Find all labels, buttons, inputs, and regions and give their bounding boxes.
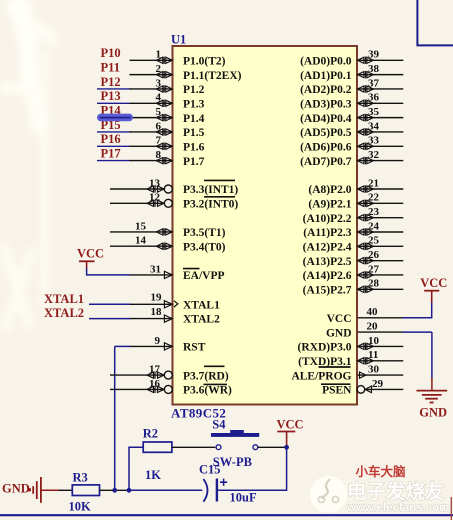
svg-text:GND: GND [2, 481, 30, 495]
resistor R2 [143, 427, 172, 482]
power symbol VCC (EA) [77, 247, 104, 269]
pin 6 P1.5 with net label P15 [97, 118, 205, 139]
svg-text:P1.4: P1.4 [183, 113, 205, 125]
svg-text:P3.4(T0): P3.4(T0) [183, 241, 226, 253]
svg-text:37: 37 [368, 77, 380, 89]
svg-text:27: 27 [368, 263, 380, 275]
svg-text:30: 30 [368, 364, 380, 376]
pin 36 (AD3)P0.3 [300, 92, 403, 111]
pin 16 P3.6(WR) [110, 378, 232, 397]
svg-text:19: 19 [151, 292, 163, 304]
svg-text:36: 36 [368, 92, 380, 104]
svg-text:P1.0(T2): P1.0(T2) [183, 56, 226, 68]
svg-text:XTAL2: XTAL2 [44, 306, 84, 320]
svg-text:7: 7 [156, 135, 162, 147]
svg-text:1: 1 [156, 49, 162, 61]
svg-text:R2: R2 [143, 427, 158, 441]
power symbol VCC (bottom) [277, 418, 304, 446]
pin 10 (RXD)P3.0 [298, 335, 404, 354]
pin 38 (AD1)P0.1 [300, 63, 403, 82]
pin 40 VCC [327, 306, 404, 325]
sheet edge line [450, 497, 452, 520]
svg-text:(A15)P2.7: (A15)P2.7 [303, 285, 352, 297]
svg-text:21: 21 [368, 177, 379, 189]
svg-text:3: 3 [156, 77, 162, 89]
svg-text:VCC: VCC [420, 276, 447, 290]
svg-text:5: 5 [156, 106, 162, 118]
pin 5 P1.4 with net label P14 [97, 103, 205, 124]
svg-text:www.elecfans.com: www.elecfans.com [346, 502, 449, 514]
svg-text:10uF: 10uF [230, 491, 257, 505]
pin 37 (AD2)P0.2 [300, 77, 403, 96]
label P3.2(INT0) [183, 197, 238, 211]
svg-text:P3.5(T1): P3.5(T1) [183, 227, 226, 239]
svg-text:U1: U1 [171, 33, 186, 47]
pin 3 P1.2 with net label P12 [97, 75, 205, 96]
ground symbol GND (right) [417, 391, 448, 420]
XTAL1 edge mark [174, 301, 178, 307]
pin 13 P3.3(INT1) [110, 177, 172, 193]
svg-text:(AD0)P0.0: (AD0)P0.0 [300, 56, 352, 68]
wire pin 20 to ground [431, 332, 433, 378]
svg-text:GND: GND [326, 327, 352, 339]
wire junction B to R2 [129, 447, 143, 490]
watermark text [346, 480, 449, 514]
svg-text:25: 25 [368, 235, 380, 247]
svg-text:(AD1)P0.1: (AD1)P0.1 [300, 70, 352, 82]
sheet frame fragment [417, 0, 453, 45]
svg-text:6: 6 [156, 120, 162, 132]
svg-text:(AD4)P0.4: (AD4)P0.4 [300, 113, 352, 125]
pin 2 P1.1(T2EX) with net label P11 [101, 60, 242, 81]
svg-text:RST: RST [183, 342, 206, 354]
svg-text:39: 39 [368, 49, 380, 61]
pin 33 (AD6)P0.6 [300, 135, 403, 154]
svg-text:9: 9 [155, 335, 161, 347]
pin 15 P3.5(T1) [110, 220, 226, 239]
svg-text:23: 23 [368, 206, 380, 218]
pin 28 (A15)P2.7 [303, 278, 404, 297]
wire RST to reset network [114, 346, 116, 490]
svg-text:2: 2 [156, 63, 162, 75]
svg-text:P1.6: P1.6 [183, 141, 205, 153]
sheet frame bottom line [0, 514, 453, 516]
svg-text:电子发烧友: 电子发烧友 [347, 480, 445, 503]
svg-text:P13: P13 [101, 89, 121, 103]
svg-text:GND: GND [419, 405, 447, 419]
junction dot C [284, 445, 289, 450]
svg-text:20: 20 [367, 321, 379, 333]
selection highlight on P14 wire [97, 114, 133, 122]
svg-text:(A9)P2.1: (A9)P2.1 [308, 199, 351, 211]
svg-text:S4: S4 [212, 417, 226, 431]
svg-text:35: 35 [368, 106, 380, 118]
pin 35 (AD4)P0.4 [300, 106, 403, 125]
label P3.3(INT1) [183, 180, 238, 196]
svg-text:16: 16 [149, 378, 161, 390]
svg-text:(A13)P2.5: (A13)P2.5 [303, 256, 352, 268]
svg-text:P1.2: P1.2 [183, 84, 205, 96]
pin 39 (AD0)P0.0 [300, 49, 403, 68]
svg-text:C15: C15 [199, 462, 221, 476]
svg-text:VCC: VCC [277, 418, 304, 432]
pin 8 P1.7 with net label P17 [97, 146, 205, 167]
svg-text:P3.2(INT0): P3.2(INT0) [183, 199, 238, 211]
svg-text:(A10)P2.2: (A10)P2.2 [303, 213, 352, 225]
pin 9 RST [115, 335, 206, 354]
svg-text:34: 34 [368, 120, 380, 132]
svg-text:(A8)P2.0: (A8)P2.0 [308, 184, 351, 196]
pin 34 (AD5)P0.5 [300, 120, 403, 139]
svg-text:12: 12 [149, 192, 161, 204]
svg-text:17: 17 [149, 364, 161, 376]
svg-text:R3: R3 [73, 471, 88, 485]
svg-text:P17: P17 [101, 146, 121, 160]
pin 25 (A12)P2.4 [303, 235, 404, 254]
svg-text:XTAL1: XTAL1 [44, 292, 84, 306]
IC U1 AT89C52 body [173, 46, 358, 405]
wire junction C to C15 [218, 447, 287, 490]
svg-text:31: 31 [150, 264, 161, 276]
pin 4 P1.3 with net label P13 [97, 89, 205, 110]
svg-text:(A11)P2.3: (A11)P2.3 [303, 227, 351, 239]
svg-text:(RXD)P3.0: (RXD)P3.0 [298, 342, 352, 354]
pin 17 P3.7(RD) [110, 364, 229, 383]
svg-text:22: 22 [368, 192, 380, 204]
resistor R3 [69, 471, 100, 514]
junction dot A [112, 488, 117, 493]
svg-text:P1.5: P1.5 [183, 127, 205, 139]
pin 18 XTAL2 with net label XTAL2 [44, 306, 220, 326]
svg-text:P3.7(RD): P3.7(RD) [183, 370, 229, 382]
svg-text:26: 26 [368, 249, 380, 261]
svg-text:PSEN: PSEN [322, 385, 352, 397]
svg-text:13: 13 [149, 177, 161, 189]
svg-text:1K: 1K [145, 468, 161, 482]
switch S4 SW-PB [211, 417, 259, 469]
pin 27 (A14)P2.6 [303, 263, 404, 282]
pin 14 P3.4(T0) [110, 235, 226, 254]
pin 1 P1.0(T2) with net label P10 [101, 46, 226, 67]
pin 30 ALE/PROG [291, 364, 403, 383]
svg-text:32: 32 [368, 149, 380, 161]
pin 20 GND [326, 321, 432, 340]
svg-text:ALE/PROG: ALE/PROG [291, 370, 351, 382]
svg-text:P10: P10 [101, 46, 121, 60]
svg-text:VCC: VCC [327, 313, 352, 325]
svg-text:28: 28 [368, 278, 380, 290]
wire R2 to switch S4 [172, 446, 215, 448]
svg-text:14: 14 [135, 235, 147, 247]
svg-text:P1.3: P1.3 [183, 98, 205, 110]
pin 31 EA/VPP [150, 264, 225, 283]
svg-text:24: 24 [368, 220, 380, 232]
pin 11 (TXD)P3.1 [298, 349, 403, 368]
pin 26 (A13)P2.5 [303, 249, 404, 268]
wire junction to C15 left plate [129, 489, 202, 491]
svg-text:38: 38 [368, 63, 380, 75]
svg-text:15: 15 [135, 220, 147, 232]
pin 22 (A9)P2.1 [308, 192, 403, 211]
wire VCC to pin 31 [87, 268, 172, 275]
svg-text:40: 40 [367, 306, 379, 318]
pin 12 P3.2(INT0) [110, 192, 172, 208]
svg-text:P11: P11 [101, 60, 120, 74]
wire R3 to junction [100, 489, 130, 491]
svg-text:18: 18 [151, 306, 163, 318]
svg-text:P3.6(WR): P3.6(WR) [183, 385, 232, 397]
svg-text:EA/VPP: EA/VPP [183, 270, 225, 282]
svg-text:(AD3)P0.3: (AD3)P0.3 [300, 98, 352, 110]
svg-text:4: 4 [156, 92, 162, 104]
svg-text:(A14)P2.6: (A14)P2.6 [303, 270, 352, 282]
svg-text:(AD5)P0.5: (AD5)P0.5 [300, 127, 352, 139]
pin 32 (AD7)P0.7 [300, 149, 403, 168]
svg-text:11: 11 [368, 349, 378, 361]
svg-text:10K: 10K [69, 500, 92, 514]
svg-text:(AD7)P0.7: (AD7)P0.7 [300, 156, 352, 168]
wire S4 to VCC junction [258, 446, 287, 448]
svg-text:P1.1(T2EX): P1.1(T2EX) [183, 70, 242, 82]
svg-text:(AD2)P0.2: (AD2)P0.2 [300, 84, 352, 96]
svg-text:XTAL2: XTAL2 [183, 314, 220, 326]
pin 21 (A8)P2.0 [308, 177, 403, 196]
background watermark figure [0, 0, 52, 328]
svg-text:29: 29 [372, 378, 384, 390]
power ground symbol GND (left battery) [2, 477, 60, 503]
pin 23 (A10)P2.2 [303, 206, 404, 225]
pin 7 P1.6 with net label P16 [97, 132, 205, 153]
power symbol VCC (right) [420, 276, 447, 303]
svg-text:P1.7: P1.7 [183, 156, 205, 168]
svg-text:P16: P16 [101, 132, 121, 146]
svg-text:(AD6)P0.6: (AD6)P0.6 [300, 141, 352, 153]
svg-text:VCC: VCC [77, 247, 104, 261]
watermark logo circle [310, 476, 347, 513]
wire GND to R3 [59, 489, 73, 491]
svg-text:XTAL1: XTAL1 [183, 299, 220, 311]
svg-text:小车大脑: 小车大脑 [355, 464, 407, 479]
svg-text:P12: P12 [101, 75, 121, 89]
svg-text:P3.3(INT1): P3.3(INT1) [183, 184, 238, 196]
junction dot B [127, 488, 132, 493]
svg-text:(A12)P2.4: (A12)P2.4 [303, 242, 352, 254]
pin 19 XTAL1 with net label XTAL1 [44, 292, 220, 312]
svg-text:10: 10 [368, 335, 380, 347]
wire VCC to pin 40 [403, 303, 432, 318]
capacitor C15 [199, 462, 257, 504]
pin 24 (A11)P2.3 [303, 220, 403, 239]
pin 29 PSEN [321, 378, 403, 397]
svg-text:33: 33 [368, 135, 380, 147]
svg-text:8: 8 [156, 149, 162, 161]
